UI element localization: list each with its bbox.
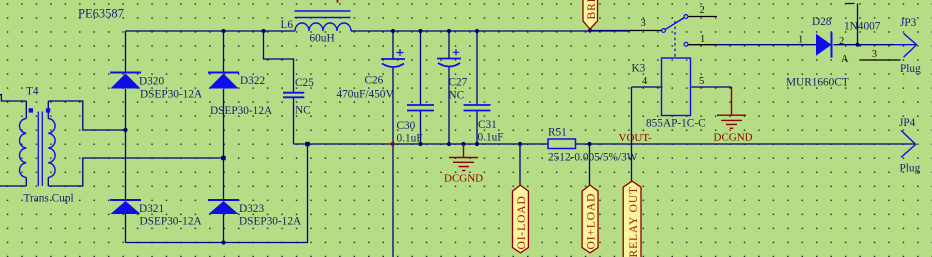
svg-text:2512-0.005/5%/3W: 2512-0.005/5%/3W [548, 152, 638, 164]
svg-text:0.1uF: 0.1uF [397, 133, 423, 145]
svg-text:T4: T4 [26, 86, 39, 98]
svg-text:2: 2 [700, 5, 705, 16]
svg-text:C31: C31 [478, 119, 497, 131]
svg-text:D321: D321 [139, 203, 164, 215]
svg-text:Plug: Plug [900, 163, 921, 175]
svg-text:DSEP30-12A: DSEP30-12A [140, 89, 203, 101]
svg-text:C25: C25 [295, 77, 314, 89]
svg-text:C27: C27 [449, 77, 468, 89]
svg-text:Plug: Plug [900, 63, 921, 75]
svg-text:4: 4 [642, 76, 648, 87]
svg-text:JP4: JP4 [899, 117, 916, 129]
svg-text:PE63587: PE63587 [78, 7, 124, 21]
svg-text:DCGND: DCGND [444, 173, 483, 185]
svg-text:VOUT-: VOUT- [619, 132, 653, 144]
svg-text:D323: D323 [239, 203, 264, 215]
svg-text:0.1uF: 0.1uF [478, 132, 504, 144]
svg-text:2: 2 [839, 36, 844, 47]
svg-text:DCGND: DCGND [714, 132, 753, 144]
svg-text:60uH: 60uH [310, 33, 335, 45]
svg-text:1: 1 [700, 34, 705, 45]
svg-text:1N4007: 1N4007 [844, 21, 881, 33]
svg-text:L6: L6 [281, 19, 294, 31]
svg-text:D322: D322 [240, 75, 265, 87]
svg-text:Trans Cupl: Trans Cupl [24, 193, 74, 205]
svg-text:NC: NC [449, 90, 465, 102]
svg-text:D320: D320 [139, 76, 164, 88]
svg-text:OI-LOAD: OI-LOAD [516, 195, 528, 249]
svg-text:K3: K3 [632, 63, 646, 75]
svg-text:C30: C30 [397, 120, 416, 132]
svg-text:D28: D28 [812, 16, 832, 28]
svg-text:3: 3 [641, 18, 646, 29]
svg-text:3: 3 [872, 49, 877, 60]
svg-text:A: A [841, 54, 849, 65]
svg-text:R51: R51 [548, 127, 567, 139]
svg-text:DSEP30-12A: DSEP30-12A [140, 216, 203, 228]
svg-text:JP3: JP3 [900, 17, 917, 29]
svg-text:C26: C26 [365, 75, 384, 87]
svg-text:OI+LOAD: OI+LOAD [586, 193, 598, 250]
svg-text:NC: NC [295, 105, 311, 117]
svg-text:DSEP30-12A: DSEP30-12A [239, 216, 302, 228]
svg-text:855AP-1C-C: 855AP-1C-C [646, 118, 706, 130]
svg-text:DSEP30-12A: DSEP30-12A [210, 105, 273, 117]
svg-text:MUR1660CT: MUR1660CT [786, 77, 849, 89]
svg-text:5: 5 [699, 76, 704, 87]
svg-text:BRI+: BRI+ [586, 0, 598, 20]
svg-text:470uF/450V: 470uF/450V [337, 89, 395, 101]
svg-text:RELAY OUT: RELAY OUT [628, 186, 640, 257]
svg-text:1: 1 [798, 35, 803, 46]
